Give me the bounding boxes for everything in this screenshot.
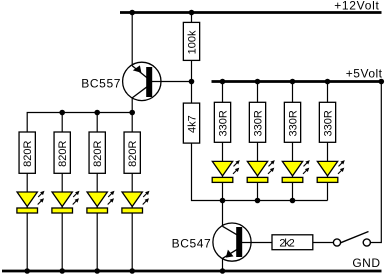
svg-text:100k: 100k (186, 30, 198, 54)
wire +5V to 330R #2 (257, 82, 259, 103)
node bus/R3 (94, 110, 100, 116)
wire R3 through LED3 to ground (96, 173, 98, 271)
wire +5V to 330R #4 (327, 82, 329, 103)
wire BC557 base to node (150, 81, 192, 83)
svg-text:4k7: 4k7 (186, 115, 198, 133)
node bus/LED6 (255, 198, 261, 204)
wire 100k bottom to base node (191, 60, 193, 81)
resistor 100k (183, 22, 199, 60)
node gnd/LED1 (24, 268, 30, 274)
resistor 820R #2 (54, 132, 70, 173)
resistor 820R #3 (89, 132, 105, 173)
ground rail (2, 270, 382, 273)
node 100k/4k7/base (189, 79, 195, 85)
wire +5V to 330R #1 (222, 82, 224, 103)
resistor 330R #1 (214, 102, 230, 142)
resistor 4k7 (183, 103, 199, 143)
svg-text:330R: 330R (287, 110, 299, 136)
LED D3 (87, 191, 115, 213)
svg-text:330R: 330R (322, 110, 334, 136)
wire 330R#2 through LED6 to bus (257, 142, 259, 200)
node 100k/+12V (189, 10, 195, 16)
wire 100k top to +12V rail (191, 13, 193, 23)
wire +5V to 330R #3 (292, 82, 294, 103)
node emitter/+12V (129, 10, 135, 16)
node gnd/LED4 (129, 268, 135, 274)
svg-text:330R: 330R (252, 110, 264, 136)
wire BC557 emitter to +12V rail (131, 13, 133, 66)
resistor 820R #4 (124, 132, 140, 173)
resistor 330R #2 (249, 102, 265, 142)
wire +5V rail to switch (right edge) (370, 82, 381, 243)
node +5V/330R#3 (290, 79, 296, 85)
resistor 2k2 (272, 235, 313, 250)
node +5V/330R#2 (255, 79, 261, 85)
wire 2k2 to switch (313, 242, 333, 244)
wire R1 through LED1 to ground (26, 173, 28, 271)
svg-text:330R: 330R (217, 110, 229, 136)
resistor 330R #3 (284, 102, 300, 142)
wire R2 through LED2 to ground (61, 173, 63, 271)
wire 4k7 bottom to right bus (192, 143, 223, 200)
wire bus to R2 top (61, 113, 63, 133)
node bus/R2 (59, 110, 65, 116)
wire BC547 base to 2k2 (240, 242, 272, 244)
svg-text:BC547: BC547 (172, 236, 212, 250)
transistor Q2 BC547 (213, 223, 251, 261)
switch S1 (333, 232, 370, 247)
svg-text:GND: GND (352, 256, 380, 270)
node +5V/330R#1 (220, 79, 226, 85)
svg-text:2k2: 2k2 (279, 238, 294, 250)
right bus wire (223, 200, 328, 202)
node bus/LED7 (290, 198, 296, 204)
+12V rail (120, 11, 382, 14)
node bus/collector (129, 110, 135, 116)
node +5V rail end (379, 79, 385, 85)
wire 330R#3 through LED7 to bus (292, 142, 294, 200)
svg-text:820R: 820R (127, 140, 139, 166)
svg-text:820R: 820R (22, 140, 34, 166)
wire bus to R4 top (131, 113, 133, 133)
wire bus to BC547 collector (222, 201, 224, 227)
node gnd/emitter (220, 268, 226, 274)
node gnd/LED3 (94, 268, 100, 274)
node gnd/LED2 (59, 268, 65, 274)
svg-text:820R: 820R (57, 140, 69, 166)
node +5V/330R#4 (325, 79, 331, 85)
wire BC557 collector to left bus (131, 98, 133, 113)
resistor 820R #1 (19, 132, 35, 173)
svg-text:820R: 820R (92, 140, 104, 166)
svg-text:+5Volt: +5Volt (346, 67, 383, 81)
LED D1 (17, 191, 45, 213)
wire 330R#1 through LED5 to bus (222, 142, 224, 200)
svg-text:BC557: BC557 (81, 77, 121, 91)
LED D6 (247, 160, 275, 182)
wire BC547 emitter to ground (222, 258, 224, 271)
svg-text:+12Volt: +12Volt (334, 0, 379, 13)
LED D4 (122, 191, 150, 213)
LED D8 (317, 160, 345, 182)
wire bus to R3 top (96, 113, 98, 133)
wire R4 through LED4 to ground (131, 173, 133, 271)
wire 330R#4 through LED8 to bus (327, 142, 329, 200)
LED D2 (52, 191, 80, 213)
wire 4k7 top to base node (191, 82, 193, 104)
LED D7 (282, 160, 310, 182)
+5V rail (212, 80, 382, 83)
resistor 330R #4 (319, 102, 335, 142)
LED D5 (212, 160, 240, 182)
transistor Q1 BC557 (123, 62, 161, 100)
node bus/collector BC547 (220, 198, 226, 204)
left bus wire (27, 113, 132, 133)
